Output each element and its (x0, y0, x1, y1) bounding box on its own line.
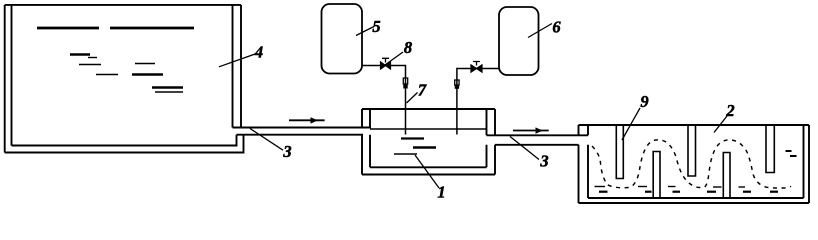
svg-text:8: 8 (404, 38, 412, 57)
svg-text:6: 6 (552, 18, 561, 37)
svg-text:5: 5 (372, 17, 380, 36)
svg-text:7: 7 (418, 81, 427, 100)
svg-text:1: 1 (437, 183, 445, 202)
svg-text:3: 3 (539, 152, 548, 171)
svg-text:9: 9 (640, 92, 648, 111)
svg-text:2: 2 (725, 101, 734, 120)
svg-text:3: 3 (282, 142, 291, 161)
svg-text:4: 4 (254, 43, 263, 62)
